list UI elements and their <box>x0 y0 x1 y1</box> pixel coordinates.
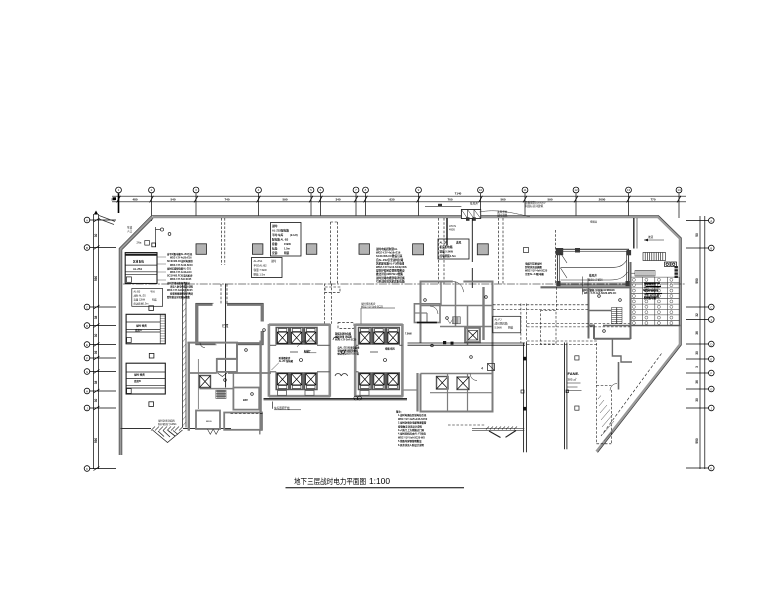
svg-text:容量 5.5kW: 容量 5.5kW <box>440 250 454 254</box>
svg-text:E: E <box>710 358 712 362</box>
svg-text:H: H <box>86 390 88 394</box>
svg-text:排风井: 排风井 <box>470 202 478 206</box>
svg-text:明装: 明装 <box>284 251 290 255</box>
svg-text:590: 590 <box>547 198 552 202</box>
svg-text:机房配电箱: 机房配电箱 <box>439 245 453 249</box>
svg-text:30: 30 <box>94 234 98 238</box>
svg-text:AT.FN: AT.FN <box>449 224 456 228</box>
svg-text:平时:车库: 平时:车库 <box>272 233 284 237</box>
svg-text:13: 13 <box>627 188 631 192</box>
svg-text:50: 50 <box>695 233 699 237</box>
svg-text:AL-FJ: AL-FJ <box>495 318 503 322</box>
svg-text:2.战时封堵处电缆预埋套管: 2.战时封堵处电缆预埋套管 <box>398 421 427 425</box>
svg-text:50: 50 <box>111 198 115 202</box>
svg-text:战时 物资: 战时 物资 <box>134 373 145 377</box>
svg-text:F: F <box>710 372 712 376</box>
svg-text:照明配电箱: 照明配电箱 <box>644 296 657 300</box>
svg-text:区域 配电: 区域 配电 <box>133 260 145 264</box>
svg-text:底边距地1.5m: 底边距地1.5m <box>134 302 149 306</box>
svg-text:540: 540 <box>170 198 175 202</box>
svg-text:5.线路均穿钢管暗敷设: 5.线路均穿钢管暗敷设 <box>398 439 422 443</box>
svg-text:36: 36 <box>94 351 98 355</box>
svg-text:590: 590 <box>94 276 98 282</box>
svg-text:引至战时排风机房配电箱: 引至战时排风机房配电箱 <box>376 279 405 283</box>
svg-text:30: 30 <box>94 399 98 403</box>
svg-text:385 ㎡: 385 ㎡ <box>568 377 577 382</box>
svg-text:AL-ZS1: AL-ZS1 <box>254 259 263 263</box>
svg-text:K: K <box>710 467 712 471</box>
svg-text:战时 物资: 战时 物资 <box>136 324 147 328</box>
svg-text:进风: 进风 <box>456 241 462 245</box>
svg-text:BFF: BFF <box>243 398 248 402</box>
svg-text:容量:: 容量: <box>272 242 278 246</box>
svg-text:穿墙做法详见设计说明: 穿墙做法详见设计说明 <box>398 424 423 428</box>
svg-text:(2-1/2): (2-1/2) <box>290 233 298 237</box>
svg-text:woo: woo <box>206 419 212 423</box>
svg-text:480: 480 <box>132 198 137 202</box>
svg-text:坡道上方留洞: 坡道上方留洞 <box>588 278 603 282</box>
svg-text:7.5kW: 7.5kW <box>405 334 412 336</box>
svg-text:WDZ-YJY-4x25+E16-SC50: WDZ-YJY-4x25+E16-SC50 <box>398 418 428 421</box>
svg-text:AL-ZS2配电箱: AL-ZS2配电箱 <box>272 229 289 233</box>
svg-text:地下三层战时电力平面图: 地下三层战时电力平面图 <box>294 476 366 486</box>
svg-text:1:100: 1:100 <box>369 477 391 486</box>
svg-text:安装:: 安装: <box>272 251 278 255</box>
svg-text:2000: 2000 <box>599 198 606 202</box>
svg-text:平时: 平时 <box>150 290 155 294</box>
svg-text:30: 30 <box>695 351 699 355</box>
svg-text:38: 38 <box>94 381 98 385</box>
svg-text:1.战时电源由区域电站引来: 1.战时电源由区域电站引来 <box>398 413 427 417</box>
svg-text:F: F <box>86 357 88 361</box>
svg-text:战时进风: 战时进风 <box>497 213 508 217</box>
svg-text:700: 700 <box>447 198 452 202</box>
svg-text:770: 770 <box>650 198 655 202</box>
svg-text:10: 10 <box>479 188 483 192</box>
svg-text:A: A <box>86 219 88 223</box>
svg-text:2Na: 2Na <box>137 241 142 245</box>
svg-text:明装 1.5m: 明装 1.5m <box>254 273 266 277</box>
svg-text:WDZ-YJY-4x6+E6-SC25: WDZ-YJY-4x6+E6-SC25 <box>167 289 193 292</box>
svg-text:做法详见02D702-2图集: 做法详见02D702-2图集 <box>375 272 403 276</box>
svg-text:洞底标高详建筑: 洞底标高详建筑 <box>525 204 544 208</box>
svg-text:36: 36 <box>695 331 699 335</box>
svg-text:排烟井: 排烟井 <box>590 220 598 224</box>
svg-text:1.5m: 1.5m <box>284 247 291 251</box>
svg-text:备注:: 备注: <box>395 410 402 414</box>
svg-text:贮藏: 贮藏 <box>222 323 229 328</box>
svg-text:WDZ-YJY-4x10+E10: WDZ-YJY-4x10+E10 <box>170 271 192 274</box>
svg-text:排风井: 排风井 <box>589 274 597 278</box>
svg-text:WDZ-YJY-4x25+E16: WDZ-YJY-4x25+E16 <box>170 257 192 260</box>
svg-text:32: 32 <box>695 313 699 317</box>
svg-text:战时:: 战时: <box>272 224 278 228</box>
svg-text:平时:AL-B2: 平时:AL-B2 <box>254 264 268 268</box>
svg-text:WDZ-YJY-5x16-SC40: WDZ-YJY-5x16-SC40 <box>170 264 193 267</box>
svg-text:平时:自行车库: 平时:自行车库 <box>644 293 660 297</box>
svg-text:战时:AL-ZS: 战时:AL-ZS <box>134 294 147 298</box>
svg-text:风机配电箱AL-FJ供电线: 风机配电箱AL-FJ供电线 <box>376 261 405 265</box>
svg-text:3: 3 <box>695 366 699 368</box>
svg-text:AL-ZS1: AL-ZS1 <box>133 267 143 271</box>
svg-text:5.5kW: 5.5kW <box>495 326 503 330</box>
svg-text:15kW: 15kW <box>284 242 291 246</box>
svg-text:配电箱 AL-B3: 配电箱 AL-B3 <box>272 238 289 242</box>
svg-text:30: 30 <box>94 334 98 338</box>
svg-text:车库照明干线: 车库照明干线 <box>274 406 290 410</box>
svg-text:引至AL-FJ配电箱: 引至AL-FJ配电箱 <box>525 272 544 276</box>
svg-text:WDZ-YJY-5x6-SC25-WS: WDZ-YJY-5x6-SC25-WS <box>398 436 425 439</box>
svg-text:封堵详见结施图: 封堵详见结施图 <box>525 265 542 269</box>
svg-text:战时物资库: 战时物资库 <box>644 282 657 286</box>
svg-text:3.人防门上方预留过门洞: 3.人防门上方预留过门洞 <box>398 428 425 432</box>
svg-text:战时封堵电缆穿墙详结施: 战时封堵电缆穿墙详结施 <box>376 276 405 280</box>
svg-text:590: 590 <box>282 198 287 202</box>
svg-text:590: 590 <box>695 278 699 284</box>
svg-text:740: 740 <box>224 198 229 202</box>
svg-text:4905: 4905 <box>449 228 455 232</box>
svg-text:A: A <box>710 219 712 223</box>
svg-text:B: B <box>86 246 88 250</box>
svg-text:14: 14 <box>677 188 681 192</box>
svg-text:战时: 战时 <box>271 259 277 263</box>
svg-text:SC40-WS.CC敷设引来: SC40-WS.CC敷设引来 <box>376 254 403 258</box>
svg-text:560: 560 <box>500 198 505 202</box>
svg-text:明装: 明装 <box>508 326 514 330</box>
svg-text:590: 590 <box>695 438 699 444</box>
svg-text:30: 30 <box>695 398 699 402</box>
svg-text:入口: 入口 <box>127 229 133 233</box>
svg-text:38: 38 <box>94 316 98 320</box>
svg-text:12: 12 <box>574 188 578 192</box>
svg-text:车道: 车道 <box>127 226 133 230</box>
svg-text:E: E <box>86 343 88 347</box>
svg-text:战时电站控制室AL: 战时电站控制室AL <box>376 247 398 251</box>
svg-text:11: 11 <box>523 188 526 192</box>
svg-text:坡道: 坡道 <box>648 235 654 239</box>
svg-text:WDZ-YJY-5x4-SC20: WDZ-YJY-5x4-SC20 <box>335 339 357 342</box>
svg-text:库房B: 库房B <box>133 379 141 383</box>
svg-text:库房A: 库房A <box>134 328 142 332</box>
svg-text:630: 630 <box>389 198 394 202</box>
svg-text:明装: 明装 <box>152 298 157 302</box>
svg-text:340: 340 <box>335 198 340 202</box>
svg-text:AL-B3: AL-B3 <box>134 291 141 294</box>
svg-text:B: B <box>710 247 712 251</box>
svg-text:穿防护密闭套管预埋敷设: 穿防护密闭套管预埋敷设 <box>376 269 405 273</box>
svg-text:标高:: 标高: <box>271 247 278 251</box>
svg-text:WDZ-YJY-5x10-SC32-WS: WDZ-YJY-5x10-SC32-WS <box>376 265 407 269</box>
svg-text:4.战时风机均由AL-FJ供电: 4.战时风机均由AL-FJ供电 <box>398 432 427 436</box>
svg-text:战时风机箱: 战时风机箱 <box>495 322 508 326</box>
svg-text:防护密闭门GFM1: 防护密闭门GFM1 <box>158 422 177 426</box>
svg-text:容量 7.5kW: 容量 7.5kW <box>254 268 268 272</box>
svg-text:WDZ-YJY-5x6-SC25: WDZ-YJY-5x6-SC25 <box>170 279 192 281</box>
svg-text:WDZ-YJY-4x16+E16: WDZ-YJY-4x16+E16 <box>376 251 401 255</box>
svg-text:6.其余详见人防设计说明: 6.其余详见人防设计说明 <box>398 443 425 447</box>
svg-text:7140: 7140 <box>455 192 462 196</box>
svg-text:K: K <box>86 467 88 471</box>
svg-text:挂墙明装1.5m: 挂墙明装1.5m <box>440 254 457 258</box>
svg-text:自AL-ZS2引至战时封堵: 自AL-ZS2引至战时封堵 <box>376 258 404 262</box>
svg-text:容量 12kW: 容量 12kW <box>134 298 146 302</box>
svg-text:FANE.: FANE. <box>568 371 580 376</box>
svg-text:590: 590 <box>94 438 98 444</box>
svg-text:36: 36 <box>695 380 699 384</box>
svg-text:顶板留洞500x500: 顶板留洞500x500 <box>525 201 546 205</box>
svg-text:AL-JF: AL-JF <box>440 241 448 245</box>
svg-text:电梯厅前室战时: 电梯厅前室战时 <box>525 262 542 266</box>
